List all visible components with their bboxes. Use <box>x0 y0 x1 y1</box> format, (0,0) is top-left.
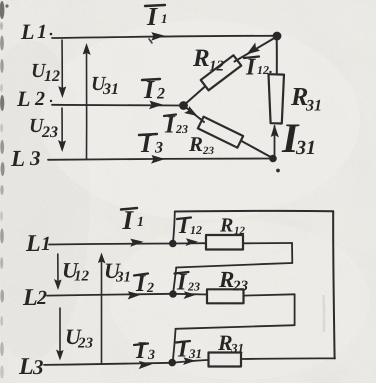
label L1 (top) <box>21 25 53 39</box>
label L2 (top) <box>17 92 52 106</box>
label I2 with macron (bottom) <box>134 274 154 293</box>
node: L1 junction (bottom) <box>169 240 177 248</box>
label I12 with macron (bottom row1) <box>177 218 202 235</box>
label L1 (bottom) <box>26 235 49 251</box>
label R31 (top) <box>291 88 320 111</box>
wire resistor R31 to right bus (bottom row3) <box>241 357 335 360</box>
arrow I12 (top diagonal) <box>244 43 261 59</box>
voltage line U31 (bottom) <box>101 255 103 364</box>
wire resistor R23 to right corner (bottom row2) <box>244 294 295 295</box>
voltage arrow line U23 (top) <box>61 108 63 148</box>
arrowheads, top diagram <box>58 32 279 164</box>
arrow U31 up (top) <box>83 43 91 55</box>
label I2 with macron (top) <box>142 79 165 99</box>
pen flick below I1 arrow <box>149 39 152 43</box>
stub down from top wire to L1 junction <box>173 212 175 243</box>
label R31 (bottom row3) <box>218 336 243 353</box>
faint pencil smudge (decorative) <box>322 296 325 331</box>
label U23 (bottom) <box>67 330 93 348</box>
voltage arrow line U12 (top) <box>61 40 63 94</box>
node: delta bottom-right node (L3) <box>269 155 277 163</box>
arrow I23 (top diagonal) <box>184 106 200 120</box>
wire down to L2 junction <box>173 268 176 293</box>
arrow I3 (bottom) <box>138 360 152 369</box>
node: delta top-right node (L1) <box>273 32 282 41</box>
label I3 with macron (bottom) <box>134 342 155 359</box>
label R12 (top) <box>193 50 224 71</box>
arrow U31 up (bottom) <box>98 253 106 264</box>
label U12 (top) <box>33 64 60 81</box>
wire line L2 (top) <box>52 104 184 107</box>
current arrow line I31 (top) <box>274 126 276 157</box>
top horizontal return wire <box>175 210 333 213</box>
right vertical bus wire <box>333 211 334 358</box>
wire resistor R23 to bottom-right node <box>242 141 273 158</box>
wire corner down (row1 loop) <box>291 243 293 263</box>
label I3 with macron (top) <box>139 134 163 153</box>
wire line L1 (bottom) <box>49 243 173 244</box>
label R12 (bottom row1) <box>220 218 245 234</box>
label I23 with macron (bottom row2) <box>175 272 200 291</box>
wire top-right node down to resistor R31 <box>276 36 278 74</box>
node: L3 junction (bottom) <box>168 359 176 367</box>
wire line L3 (top) <box>48 158 273 159</box>
wire node L2 to resistor R12 (delta branch) <box>184 87 206 106</box>
arrow U23 down (top) <box>58 140 66 152</box>
resistor R31 (top, vertical) <box>269 74 285 123</box>
label I1 with macron (bottom) <box>121 208 143 229</box>
label U23 (top) <box>31 119 58 137</box>
arrow I31 up (top) <box>271 125 279 138</box>
voltage arrow line U31 (top) <box>86 48 88 159</box>
label L2 (bottom) <box>23 289 47 305</box>
label I31 (top, large) <box>282 125 314 155</box>
arrow I23 (bottom row2) <box>184 291 197 299</box>
wire resistor R12 to top-right node <box>235 37 278 62</box>
label L3 (top) <box>11 151 40 166</box>
wire node L2 to resistor R23 (delta branch) <box>184 106 205 123</box>
label U12 (bottom) <box>64 263 89 280</box>
arrow U12 down (top) <box>58 86 66 98</box>
paper shading patches (decorative) <box>0 40 90 360</box>
wire line L2 (bottom) <box>47 294 173 296</box>
wire L3 junction to resistor R31 (bottom) <box>172 360 209 363</box>
arrow I3 (top) <box>151 155 165 164</box>
arrow U23 down (bottom) <box>56 350 64 361</box>
voltage line U23 (bottom) <box>59 308 61 357</box>
wire L1 junction to resistor R12 (bottom) <box>173 242 207 244</box>
arrow I31 (bottom row3) <box>183 357 196 365</box>
resistor R12 (bottom) <box>206 235 243 250</box>
wire line L3 (bottom) <box>44 363 172 365</box>
wire L2 junction to resistor R23 (bottom) <box>173 293 207 296</box>
arrow I2 (bottom) <box>127 291 141 300</box>
arrow U12 down (bottom) <box>54 279 62 290</box>
wire loop back left (row1 to L2 junction) <box>176 263 292 268</box>
resistor R23 (top, tilted) <box>198 117 243 148</box>
label I12 with macron (top) <box>244 57 272 75</box>
torn left paper edge marks <box>0 1 9 379</box>
label L3 (bottom) <box>19 358 43 374</box>
arrow I2 (top) <box>149 101 163 110</box>
label R23 (bottom row2) <box>219 272 248 291</box>
label R23 (top) <box>189 137 214 154</box>
arrow I1 (bottom) <box>130 238 144 247</box>
stray ink dot below bottom-right node <box>276 169 280 173</box>
node: delta left node (L2) <box>179 101 188 110</box>
arrow I12 (bottom row1) <box>186 238 199 246</box>
resistor R31 (bottom) <box>209 353 242 367</box>
arrowheads, bottom diagram <box>54 238 198 369</box>
voltage line U12 (bottom) <box>57 254 59 287</box>
wire down to L3 junction <box>173 329 176 362</box>
label U31 (top) <box>93 77 118 94</box>
resistor R23 (bottom) <box>207 289 244 303</box>
label I23 with macron (top, near node) <box>164 115 188 134</box>
label I31 with macron (bottom row3) <box>176 341 201 358</box>
node: L2 junction (bottom) <box>169 290 177 298</box>
resistor R12 (top, tilted) <box>201 55 242 90</box>
wire corner down (row2 loop) <box>294 294 296 325</box>
arrow I1 (top) <box>151 32 165 41</box>
label U31 (bottom) <box>106 264 130 282</box>
wire line L1 (top) <box>52 36 276 38</box>
wire loop back left (row2 to L3 junction) <box>176 325 295 329</box>
wire resistor R12 to right corner (bottom row1) <box>243 242 292 244</box>
label I1 with macron (top) <box>145 5 166 25</box>
